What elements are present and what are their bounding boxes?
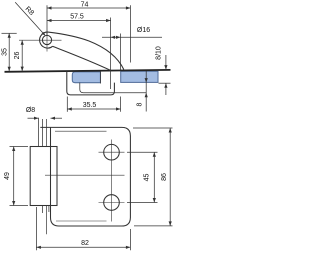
dimension 49 xyxy=(10,147,29,206)
pin line inner right / centerline xyxy=(45,119,47,147)
pin line outer right below knuckle xyxy=(48,206,50,213)
svg-text:45: 45 xyxy=(143,174,150,182)
dimension 57.5 xyxy=(47,20,111,22)
dimension 74 xyxy=(47,5,130,62)
pin line inner left xyxy=(41,119,43,147)
pin hole vertical centerline xyxy=(46,31,48,52)
pin hole / 26 reference horizontal centerline xyxy=(19,39,62,41)
base/glass top surface line (thick) xyxy=(5,70,171,72)
glass pane left segment (blue) xyxy=(72,72,100,83)
svg-text:35: 35 xyxy=(2,48,9,56)
plate inner line top xyxy=(55,130,107,132)
knuckle block xyxy=(30,147,57,206)
dimension 35.5 xyxy=(67,97,120,112)
svg-text:Ø16: Ø16 xyxy=(137,27,150,34)
svg-text:8: 8 xyxy=(137,102,144,106)
boss line right (O16) xyxy=(120,34,122,71)
svg-text:35.5: 35.5 xyxy=(83,102,97,109)
dimension O8 xyxy=(28,117,63,119)
boss line left (O16) xyxy=(110,18,112,90)
dimension 82 xyxy=(36,207,130,250)
glass notch left edge line xyxy=(99,71,101,84)
svg-text:74: 74 xyxy=(81,2,89,9)
dimension 86 xyxy=(133,128,173,226)
svg-text:8/10: 8/10 xyxy=(156,46,163,60)
svg-text:86: 86 xyxy=(161,173,168,181)
dimension 35 xyxy=(2,33,17,71)
svg-text:26: 26 xyxy=(14,52,21,60)
leader R8 xyxy=(15,2,45,35)
svg-text:82: 82 xyxy=(81,240,89,247)
svg-text:Ø8: Ø8 xyxy=(26,107,35,114)
dimension 8/10 glass thickness xyxy=(159,55,171,95)
leaf horizontal centerline xyxy=(45,174,125,176)
hole upper xyxy=(99,140,125,222)
hinge plate outline (plan view) xyxy=(40,127,130,226)
hinge arm outline (side view) xyxy=(49,32,124,70)
svg-text:49: 49 xyxy=(4,172,11,180)
plate inner line bottom xyxy=(56,220,107,222)
svg-text:57.5: 57.5 xyxy=(70,14,84,21)
pin line outer left xyxy=(38,118,40,147)
dimension 8 (glass bottom to jaw seat) xyxy=(145,71,147,112)
dimension 45 xyxy=(127,152,158,202)
lower jaw inner line / 8mm reference xyxy=(80,83,146,93)
lower jaw outline xyxy=(67,71,115,95)
R8 outer arc at pin xyxy=(40,32,53,48)
glass pane right segment (blue) xyxy=(121,71,158,82)
pin hole circle xyxy=(42,35,51,44)
dimension O16 leader xyxy=(102,36,162,38)
dimension 26 xyxy=(21,40,23,71)
hole lower xyxy=(99,195,125,211)
